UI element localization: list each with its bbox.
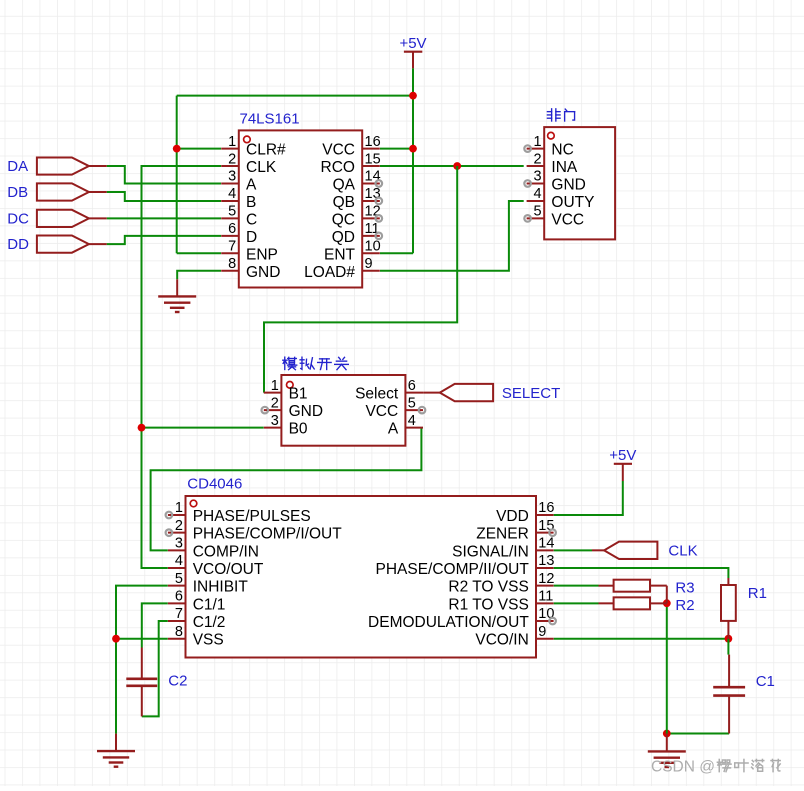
svg-text:13: 13 — [365, 186, 381, 202]
svg-text:7: 7 — [228, 239, 236, 255]
svg-text:2: 2 — [271, 395, 279, 411]
svg-text:3: 3 — [175, 536, 183, 552]
svg-text:PHASE/COMP/II/OUT: PHASE/COMP/II/OUT — [375, 561, 529, 578]
svg-text:INA: INA — [551, 159, 578, 176]
svg-text:5: 5 — [228, 204, 236, 220]
wire R1TOVSS to R2 — [554, 602, 599, 604]
svg-text:1: 1 — [534, 134, 542, 150]
svg-text:6: 6 — [408, 378, 416, 394]
svg-text:ENT: ENT — [324, 246, 356, 263]
wire to CLR# pin 1 — [177, 148, 221, 150]
analog-switch pin 2 GND — [262, 395, 324, 420]
svg-text:1: 1 — [175, 500, 183, 516]
74LS161 pin 14 QA — [333, 169, 383, 194]
wire RCO to INA — [380, 165, 524, 167]
svg-text:C: C — [246, 211, 257, 228]
svg-text:5: 5 — [534, 204, 542, 220]
svg-text:GND: GND — [289, 403, 323, 420]
capacitor C2 — [126, 648, 187, 717]
CD4046 pin 10 DEMODULATION/OUT — [368, 606, 556, 631]
svg-text:QB: QB — [333, 194, 355, 211]
svg-text:SIGNAL/IN: SIGNAL/IN — [452, 543, 529, 560]
svg-text:PHASE/PULSES: PHASE/PULSES — [193, 508, 311, 525]
svg-text:DB: DB — [7, 184, 28, 201]
svg-text:VDD: VDD — [496, 508, 529, 525]
74LS161 IC body — [239, 110, 362, 287]
ground bottom left — [97, 734, 135, 767]
analog-switch pin 3 B0 — [264, 413, 308, 438]
wire VCO/IN row — [554, 638, 729, 640]
svg-text:4: 4 — [534, 186, 542, 202]
junction VSS ground net — [112, 635, 120, 643]
svg-text:5: 5 — [175, 571, 183, 587]
CD4046 pin 5 INHIBIT — [168, 571, 248, 596]
svg-text:3: 3 — [534, 169, 542, 185]
ground bottom right — [648, 734, 686, 768]
svg-text:1: 1 — [271, 378, 279, 394]
svg-text:C1: C1 — [756, 673, 775, 690]
wire C1/1 to capacitor C2 — [142, 603, 168, 647]
wire VCO/IN down to C1 — [727, 639, 729, 655]
wire RCO net down to B1 — [264, 166, 457, 393]
wire to VCC pin 16 — [380, 148, 413, 150]
svg-text:COMP/IN: COMP/IN — [193, 543, 259, 560]
svg-text:CD4046: CD4046 — [187, 476, 242, 493]
svg-text:R2: R2 — [675, 597, 694, 614]
NOT-gate IC body — [544, 109, 615, 240]
svg-text:CSDN @: CSDN @ — [651, 759, 715, 776]
wire DA to pin A — [107, 166, 221, 183]
analog-switch IC body — [281, 357, 405, 446]
svg-text:R2 TO VSS: R2 TO VSS — [448, 579, 528, 596]
svg-text:CLK: CLK — [246, 159, 277, 176]
svg-text:OUTY: OUTY — [551, 194, 594, 211]
wire SIGNAL/IN to CLK port — [554, 549, 592, 551]
svg-text:7: 7 — [175, 606, 183, 622]
port CLK — [604, 542, 697, 560]
CD4046 pin 14 SIGNAL/IN — [452, 536, 554, 561]
wire R2TOVSS to R3 — [554, 585, 599, 587]
NOT-gate pin 4 OUTY — [527, 186, 595, 211]
port DB — [7, 183, 106, 201]
CD4046 pin 4 VCO/OUT — [168, 553, 264, 578]
CD4046 pin 12 R2 TO VSS — [448, 571, 554, 596]
svg-text:VSS: VSS — [193, 632, 224, 649]
port DA — [7, 157, 106, 175]
svg-text:5: 5 — [408, 395, 416, 411]
74LS161 pin 15 RCO — [321, 151, 381, 176]
svg-text:+5V: +5V — [609, 447, 636, 464]
svg-text:+5V: +5V — [399, 35, 426, 52]
wire +5V vertical rail — [412, 68, 414, 253]
wire to ENP pin 7 — [177, 252, 221, 254]
74LS161 pin 3 A — [221, 169, 257, 194]
analog-switch pin 1 B1 — [264, 378, 308, 403]
svg-text:14: 14 — [538, 536, 554, 552]
svg-text:6: 6 — [175, 589, 183, 605]
watermark CSDN — [651, 759, 780, 776]
svg-text:16: 16 — [538, 500, 554, 516]
svg-text:QD: QD — [332, 229, 355, 246]
CD4046 pin 1 PHASE/PULSES — [166, 500, 311, 525]
svg-text:B: B — [246, 194, 256, 211]
port SELECT — [423, 384, 560, 402]
CD4046 pin 13 PHASE/COMP/II/OUT — [375, 553, 554, 578]
NOT-gate pin 2 INA — [527, 151, 578, 176]
svg-text:10: 10 — [538, 606, 554, 622]
wire DB to pin B — [107, 192, 221, 201]
svg-text:VCC: VCC — [365, 403, 398, 420]
wire VCO/OUT net vertical — [142, 166, 222, 568]
svg-text:Select: Select — [355, 386, 399, 403]
svg-text:R3: R3 — [675, 580, 694, 597]
svg-text:2: 2 — [228, 151, 236, 167]
svg-text:10: 10 — [365, 239, 381, 255]
74LS161 pin 9 LOADn — [304, 256, 380, 281]
wire counter CLR#/ENP branch vertical — [176, 96, 178, 254]
svg-text:C1/2: C1/2 — [193, 614, 226, 631]
svg-text:A: A — [388, 421, 399, 438]
74LS161 pin 11 QD — [332, 221, 382, 246]
wire to ENT pin 10 — [380, 252, 413, 254]
svg-text:VCC: VCC — [551, 211, 584, 228]
svg-text:15: 15 — [365, 151, 381, 167]
svg-text:DA: DA — [7, 158, 28, 175]
junction +5V rail upper — [409, 92, 417, 100]
svg-text:9: 9 — [538, 624, 546, 640]
port DD — [7, 236, 106, 254]
CD4046 pin 2 PHASE/COMP/I/OUT — [166, 518, 343, 543]
wire CLK port tail — [592, 549, 604, 551]
svg-text:3: 3 — [271, 413, 279, 429]
junction +5V rail at VCC — [409, 145, 417, 153]
wire GND pin 8 to ground — [177, 271, 221, 280]
svg-text:3: 3 — [228, 169, 236, 185]
svg-text:2: 2 — [534, 151, 542, 167]
74LS161 pin 4 B — [221, 186, 256, 211]
resistor R1 — [721, 578, 767, 639]
svg-text:VCC: VCC — [322, 142, 355, 159]
74LS161 pin 13 QB — [333, 186, 383, 211]
svg-text:11: 11 — [538, 589, 553, 605]
junction VCO/IN under R1 — [725, 635, 733, 643]
svg-text:74LS161: 74LS161 — [240, 110, 300, 127]
svg-text:QC: QC — [332, 211, 355, 228]
wire switch A to COMP/IN — [151, 428, 422, 551]
svg-text:12: 12 — [365, 204, 381, 220]
svg-text:INHIBIT: INHIBIT — [193, 579, 249, 596]
analog-switch pin 6 Select — [355, 378, 423, 403]
svg-text:ENP: ENP — [246, 246, 278, 263]
svg-text:4: 4 — [228, 186, 236, 202]
svg-text:B1: B1 — [289, 386, 308, 403]
svg-text:6: 6 — [228, 221, 236, 237]
resistor R2 — [599, 597, 695, 614]
svg-text:GND: GND — [246, 264, 280, 281]
svg-text:8: 8 — [228, 256, 236, 272]
CD4046 IC body — [186, 476, 537, 658]
svg-text:VCO/OUT: VCO/OUT — [193, 561, 264, 578]
CD4046 pin 11 R1 TO VSS — [448, 589, 553, 614]
resistor R3 — [599, 580, 695, 604]
svg-text:A: A — [246, 177, 257, 194]
svg-text:4: 4 — [408, 413, 416, 429]
wire OUTY to LOAD# — [380, 201, 524, 271]
svg-text:NC: NC — [551, 142, 573, 159]
CD4046 pin 8 VSS — [168, 624, 224, 649]
svg-text:R1 TO VSS: R1 TO VSS — [448, 596, 528, 613]
74LS161 pin 1 CLRn — [221, 134, 286, 159]
svg-text:PHASE/COMP/I/OUT: PHASE/COMP/I/OUT — [193, 526, 343, 543]
junction VCO/OUT net at B0 — [138, 424, 146, 432]
74LS161 pin 8 GND — [221, 256, 280, 281]
svg-text:VCO/IN: VCO/IN — [475, 632, 528, 649]
CD4046 pin 16 VDD — [496, 500, 554, 525]
74LS161 pin 10 ENT — [324, 239, 381, 264]
capacitor C1 — [713, 655, 775, 734]
svg-text:16: 16 — [365, 134, 381, 150]
wire branch to B0 — [142, 427, 264, 429]
wire DC to pin C — [107, 217, 221, 219]
74LS161 pin 7 ENP — [221, 239, 278, 264]
74LS161 pin 2 CLK — [221, 151, 277, 176]
junction on CLR# branch — [173, 145, 181, 153]
svg-text:1: 1 — [228, 134, 236, 150]
svg-text:R1: R1 — [748, 585, 767, 602]
svg-text:D: D — [246, 229, 257, 246]
wire VDD to +5V — [554, 481, 623, 515]
NOT-gate pin 3 GND — [524, 169, 586, 194]
svg-text:GND: GND — [551, 177, 585, 194]
svg-text:C2: C2 — [168, 672, 187, 689]
74LS161 pin 6 D — [221, 221, 257, 246]
svg-text:4: 4 — [175, 553, 183, 569]
CD4046 pin 3 COMP/IN — [168, 536, 259, 561]
+5V power symbol right — [609, 447, 636, 481]
svg-text:LOAD#: LOAD# — [304, 264, 355, 281]
svg-text:DC: DC — [7, 210, 29, 227]
74LS161 pin 12 QC — [332, 204, 382, 229]
CD4046 pin 6 C1/1 — [168, 589, 226, 614]
svg-text:8: 8 — [175, 624, 183, 640]
junction RCO net — [453, 162, 461, 170]
svg-text:RCO: RCO — [321, 159, 355, 176]
svg-text:DD: DD — [7, 236, 29, 253]
CD4046 pin 15 ZENER — [476, 518, 556, 543]
svg-text:ZENER: ZENER — [476, 526, 529, 543]
ground under 74LS161 — [158, 279, 196, 312]
wire VSS pin 8 — [116, 638, 168, 640]
svg-text:14: 14 — [365, 169, 381, 185]
svg-text:2: 2 — [175, 518, 183, 534]
wire C2 bottom to C1/2 — [142, 621, 168, 716]
svg-text:CLR#: CLR# — [246, 142, 286, 159]
svg-text:B0: B0 — [289, 421, 308, 438]
wire R2/R3 junction down to ground — [666, 603, 668, 733]
NOT-gate pin 1 NC — [524, 134, 573, 159]
svg-text:QA: QA — [333, 177, 356, 194]
analog-switch pin 4 A — [388, 413, 423, 438]
wire +5V top rail horizontal to counter branch — [177, 95, 413, 97]
svg-text:9: 9 — [365, 256, 373, 272]
wire DD to pin D — [107, 236, 221, 244]
74LS161 pin 5 C — [221, 204, 257, 229]
CD4046 pin 7 C1/2 — [168, 606, 226, 631]
svg-text:12: 12 — [538, 571, 554, 587]
wire C1 bottom to ground net — [667, 733, 729, 735]
wire PHASE/COMP/II/OUT to R1 — [554, 568, 729, 578]
wire INHIBIT to VSS rail — [116, 586, 168, 734]
CD4046 pin 9 VCO/IN — [475, 624, 553, 649]
svg-text:CLK: CLK — [668, 543, 697, 560]
junction R2 R3 common — [663, 599, 671, 607]
NOT-gate pin 5 VCC — [524, 204, 584, 229]
+5V power symbol top — [399, 35, 426, 68]
svg-text:C1/1: C1/1 — [193, 596, 226, 613]
svg-text:DEMODULATION/OUT: DEMODULATION/OUT — [368, 614, 529, 631]
analog-switch pin 5 VCC — [365, 395, 425, 420]
junction ground net bottom right — [663, 730, 671, 738]
74LS161 pin 16 VCC — [322, 134, 380, 159]
port DC — [7, 210, 106, 228]
svg-text:SELECT: SELECT — [502, 385, 560, 402]
svg-text:11: 11 — [365, 221, 380, 237]
svg-text:15: 15 — [538, 518, 554, 534]
svg-text:13: 13 — [538, 553, 554, 569]
